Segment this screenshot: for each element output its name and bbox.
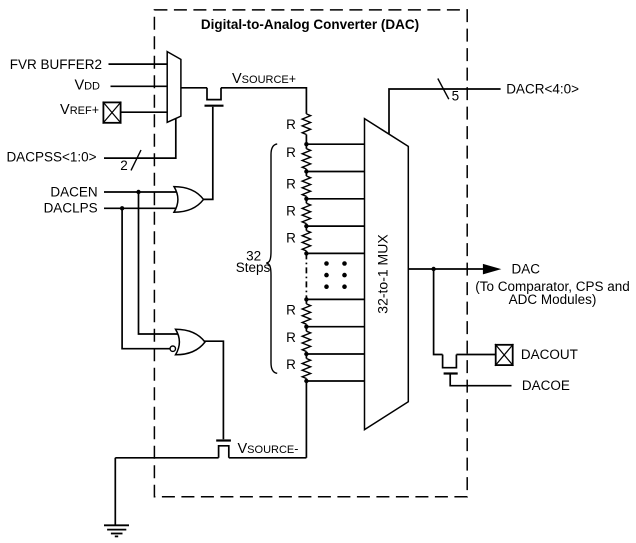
transistor Q3 NMOS channel (219, 446, 229, 458)
wire U3 output down to Q3 gate (205, 341, 224, 439)
wire Q2 gate to DACOE (450, 375, 511, 386)
wire DAC output (408, 268, 484, 270)
svg-text:32-to-1 MUX: 32-to-1 MUX (374, 234, 390, 314)
node ladder tap junction (304, 379, 308, 383)
svg-text:VDD: VDD (74, 77, 100, 93)
wire DACPSS select to input mux (104, 119, 176, 159)
transistor Q2 gate bar (444, 372, 458, 374)
wire to ground (114, 458, 116, 526)
ground symbol (104, 525, 129, 536)
wire DACEN branch down to U3 (139, 192, 180, 334)
svg-text:Digital-to-Analog Converter (D: Digital-to-Analog Converter (DAC) (201, 17, 419, 32)
transistor Q1 gate bar (205, 105, 224, 107)
brace 32 steps (266, 144, 277, 373)
transistor Q1 PMOS channel (Vsource+ switch) (207, 88, 221, 100)
wire ladder stubs (305, 135, 307, 382)
svg-text:VSOURCE-: VSOURCE- (238, 441, 299, 457)
svg-text:R: R (286, 231, 296, 246)
svg-text:R: R (286, 204, 296, 219)
node ladder tap junction (304, 352, 308, 356)
dashed module border (154, 10, 467, 497)
bus slash DACR (438, 79, 449, 100)
wire VREF+ pad to input mux (120, 111, 168, 113)
svg-text:R: R (286, 145, 296, 160)
arrow DAC output (483, 264, 501, 275)
node DAC junction (431, 267, 435, 271)
resistor R (ladder #2) (302, 149, 310, 169)
wire DACLPS input (104, 207, 179, 209)
wire Vsource- rail (115, 457, 306, 459)
node DACEN junction (136, 190, 140, 194)
resistor R (ladder #7) (302, 331, 310, 351)
svg-text:R: R (286, 117, 296, 132)
svg-text:R: R (286, 177, 296, 192)
node DACLPS junction (120, 206, 124, 210)
gate U2 OR body (174, 187, 204, 213)
node ladder tap junction (304, 251, 308, 255)
svg-text:DACR<4:0>: DACR<4:0> (506, 81, 579, 96)
transistor Q2 NMOS channel (DACOUT switch) (443, 355, 457, 368)
resistor R (ladder #1) (302, 114, 310, 135)
node ladder tap junction (304, 325, 308, 329)
transistor Q3 gate bar (Vsource- switch) (216, 439, 231, 441)
svg-text:R: R (286, 357, 296, 372)
resistor R (ladder #6) (302, 304, 310, 324)
pin DACOUT pad (crossed box) (495, 344, 513, 366)
wire DACEN input (104, 191, 179, 193)
svg-text:DACOE: DACOE (522, 378, 570, 393)
svg-text:R: R (286, 330, 296, 345)
svg-text:2: 2 (120, 158, 128, 173)
wire input mux output to Q1 source (181, 87, 207, 89)
svg-text:DACEN: DACEN (50, 184, 97, 199)
wire ladder taps to MUX (306, 144, 364, 381)
svg-text:FVR BUFFER2: FVR BUFFER2 (10, 57, 102, 72)
ellipsis dots (ladder continuation) (324, 261, 347, 289)
svg-text:ADC Modules): ADC Modules) (509, 292, 597, 307)
wire DACR<4:0> select to MUX (389, 89, 501, 134)
mux U1 input selector (trapezoid) (167, 52, 181, 123)
wire ladder bottom to Vsource- (305, 381, 307, 458)
gate U3 OR body (176, 329, 206, 355)
bus slash DACPSS (131, 150, 141, 170)
wire Q2 to DACOUT pad (456, 354, 495, 356)
node ladder tap junction (304, 224, 308, 228)
svg-text:DACPSS<1:0>: DACPSS<1:0> (6, 150, 96, 165)
svg-text:DACOUT: DACOUT (521, 347, 578, 362)
resistor R (ladder #4) (302, 203, 310, 223)
mux U4 32-to-1 MUX body (365, 119, 409, 430)
wire U2 output up to Q1 gate (203, 107, 213, 200)
wire DACLPS branch down to U3 bubble (122, 208, 170, 348)
resistor ladder top wire (221, 88, 306, 114)
node ladder tap junction (304, 142, 308, 146)
node ladder tap junction (304, 197, 308, 201)
resistor R (ladder #3) (302, 176, 310, 196)
wire ladder dash-dot continuation (305, 253, 307, 299)
svg-text:VREF+: VREF+ (60, 102, 99, 118)
resistor R (ladder #8) (302, 359, 310, 379)
node ladder tap junction (304, 169, 308, 173)
svg-text:Steps: Steps (236, 260, 271, 275)
node ladder tap junction (304, 297, 308, 301)
svg-text:5: 5 (452, 89, 460, 104)
svg-text:R: R (286, 303, 296, 318)
svg-text:DAC: DAC (512, 261, 541, 276)
resistor R (ladder #5) (302, 231, 310, 251)
svg-text:VSOURCE+: VSOURCE+ (232, 71, 296, 87)
wire FVR BUFFER2 to input mux (109, 63, 169, 65)
gate U3 input bubble (170, 346, 175, 351)
wire DAC branch down to Q2 (434, 269, 443, 355)
svg-text:DACLPS: DACLPS (44, 201, 98, 216)
pin VREF+ pad (crossed box) (103, 102, 122, 124)
wire VDD to input mux (111, 85, 169, 87)
